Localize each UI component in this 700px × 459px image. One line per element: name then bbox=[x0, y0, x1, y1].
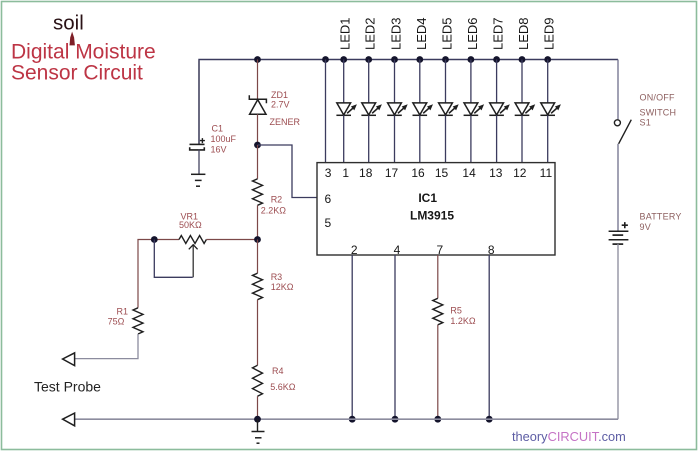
battery 9V bbox=[609, 222, 629, 244]
LED9 label bbox=[542, 17, 557, 50]
pin 7 label bbox=[436, 243, 443, 257]
R2 value label bbox=[261, 194, 287, 215]
ground under C1 bbox=[191, 174, 205, 186]
pin 17 label bbox=[385, 166, 399, 180]
node VR1 left bbox=[151, 236, 158, 243]
node top bus at LED1 bbox=[340, 56, 347, 63]
svg-text:11: 11 bbox=[540, 166, 553, 180]
wire LED7 to IC bbox=[496, 115, 498, 162]
svg-text:LED9: LED9 bbox=[542, 17, 557, 50]
svg-text:12KΩ: 12KΩ bbox=[271, 282, 294, 292]
resistor R1 bbox=[133, 308, 143, 334]
LED5 label bbox=[440, 17, 455, 50]
R3 value label bbox=[271, 272, 294, 292]
wire battery to ground bus bbox=[75, 244, 618, 419]
wire top bus to LED7 bbox=[496, 60, 498, 104]
svg-text:Sensor Circuit: Sensor Circuit bbox=[11, 62, 143, 85]
node bus at pin 4 bbox=[392, 416, 399, 423]
svg-text:6: 6 bbox=[325, 192, 332, 206]
LED1 label bbox=[338, 17, 353, 50]
LED3 bbox=[387, 103, 408, 115]
svg-text:R1: R1 bbox=[117, 306, 129, 316]
VR1 value label bbox=[179, 211, 202, 230]
wire VR1 wiper loop bbox=[154, 240, 192, 278]
node top bus at LED5 bbox=[442, 56, 449, 63]
svg-text:5: 5 bbox=[325, 216, 332, 230]
LED9 bbox=[540, 103, 561, 115]
test probe arrow lower bbox=[63, 413, 75, 426]
pin 2 label bbox=[351, 243, 358, 257]
node top bus at LED4 bbox=[416, 56, 423, 63]
capacitor C1 bbox=[190, 61, 205, 150]
LED3 label bbox=[389, 17, 404, 50]
LED5 bbox=[438, 103, 459, 115]
svg-text:R5: R5 bbox=[450, 306, 462, 316]
svg-text:3: 3 bbox=[325, 166, 332, 180]
title word soil bbox=[53, 12, 84, 35]
svg-text:5.6KΩ: 5.6KΩ bbox=[270, 382, 296, 392]
svg-text:17: 17 bbox=[385, 166, 399, 180]
LED4 bbox=[413, 103, 434, 115]
wire IC pin 8 to ground bus bbox=[488, 255, 490, 419]
IC1 name labels bbox=[410, 191, 454, 223]
R1 value label bbox=[108, 306, 128, 326]
wire top bus to LED2 bbox=[368, 60, 370, 104]
wire LED2 to IC bbox=[368, 115, 370, 162]
resistor R2 bbox=[253, 179, 263, 206]
node top bus at pin 3 column bbox=[322, 56, 329, 63]
LED6 label bbox=[465, 17, 480, 50]
pin 12 label bbox=[513, 166, 527, 180]
svg-text:15: 15 bbox=[435, 166, 449, 180]
title line Sensor Circuit bbox=[11, 62, 143, 85]
node top bus at LED6 bbox=[468, 56, 475, 63]
wire R1 column to VR1 left node bbox=[138, 240, 179, 308]
svg-text:LM3915: LM3915 bbox=[410, 209, 454, 223]
wire R5 to ground bus bbox=[437, 325, 439, 419]
op-amp IC1 LM3915 box bbox=[317, 163, 555, 255]
svg-text:LED1: LED1 bbox=[338, 17, 353, 50]
node top bus at LED8 bbox=[519, 56, 526, 63]
LED7 label bbox=[491, 17, 506, 50]
C1 value label bbox=[211, 124, 237, 155]
wire LED9 to IC bbox=[547, 115, 549, 162]
svg-text:ON/OFF: ON/OFF bbox=[640, 92, 675, 102]
svg-text:R2: R2 bbox=[271, 194, 283, 204]
node below ZD1 bbox=[254, 142, 261, 149]
svg-text:16: 16 bbox=[411, 166, 425, 180]
svg-text:IC1: IC1 bbox=[418, 191, 437, 205]
svg-text:ZENER: ZENER bbox=[270, 117, 301, 127]
svg-text:LED2: LED2 bbox=[363, 17, 378, 50]
svg-text:2.2KΩ: 2.2KΩ bbox=[261, 205, 287, 215]
pin 18 label bbox=[359, 166, 373, 180]
svg-text:50KΩ: 50KΩ bbox=[179, 220, 202, 230]
wire top bus to LED4 bbox=[419, 60, 421, 104]
switch S1 label bbox=[640, 92, 677, 127]
pin 14 label bbox=[462, 166, 476, 180]
wire node to R3 bbox=[257, 240, 259, 274]
LED6 bbox=[464, 103, 485, 115]
pin 8 label bbox=[488, 243, 495, 257]
svg-text:18: 18 bbox=[359, 166, 373, 180]
zener diode ZD1 bbox=[249, 95, 266, 114]
node top bus at LED7 bbox=[493, 56, 500, 63]
node bus at pin 7 bbox=[434, 416, 441, 423]
ground at bottom bus bbox=[252, 419, 265, 443]
svg-text:LED6: LED6 bbox=[465, 17, 480, 50]
node bus at pin 2 bbox=[349, 416, 356, 423]
LED7 bbox=[489, 103, 510, 115]
resistor R3 bbox=[253, 273, 263, 300]
pin 15 label bbox=[435, 166, 449, 180]
pin 3 label bbox=[325, 166, 332, 180]
svg-text:12: 12 bbox=[513, 166, 527, 180]
LED1 bbox=[336, 103, 357, 115]
wire IC pin 2 to ground bus bbox=[351, 255, 353, 419]
svg-text:soil: soil bbox=[53, 12, 84, 35]
wire R3 to R4 bbox=[257, 300, 259, 366]
svg-text:ZD1: ZD1 bbox=[271, 90, 288, 100]
wire top bus to LED5 bbox=[445, 60, 447, 104]
wire node to IC pin 6 bbox=[258, 145, 318, 198]
svg-text:LED8: LED8 bbox=[516, 17, 531, 50]
svg-text:LED7: LED7 bbox=[491, 17, 506, 50]
wire top bus to LED9 bbox=[547, 60, 549, 104]
svg-text:R3: R3 bbox=[271, 272, 283, 282]
resistor R5 bbox=[433, 298, 443, 325]
wire R4 to ground bus bbox=[257, 396, 259, 419]
LED8 bbox=[515, 103, 536, 115]
wire R1 to probe arrow bbox=[75, 334, 138, 359]
svg-text:75Ω: 75Ω bbox=[108, 316, 125, 326]
Test Probe label bbox=[34, 379, 101, 395]
svg-text:Test Probe: Test Probe bbox=[34, 379, 101, 395]
switch S1 bbox=[614, 120, 631, 144]
test probe arrow upper bbox=[63, 353, 75, 366]
node top bus at LED3 bbox=[391, 56, 398, 63]
svg-text:16V: 16V bbox=[211, 144, 227, 154]
node bus at ground bbox=[254, 416, 261, 423]
pin 5 label bbox=[325, 216, 332, 230]
pin 11 label bbox=[540, 166, 553, 180]
svg-text:9V: 9V bbox=[640, 222, 651, 232]
svg-text:C1: C1 bbox=[212, 124, 224, 134]
wire top supply bus bbox=[199, 60, 618, 145]
wire LED5 to IC bbox=[445, 115, 447, 162]
title line Digital Moisture bbox=[11, 41, 156, 64]
wire IC pin 7 to R5 bbox=[437, 255, 439, 298]
R4 value label bbox=[270, 366, 296, 392]
svg-text:R4: R4 bbox=[272, 366, 284, 376]
wire LED3 to IC bbox=[394, 115, 396, 162]
wire top bus to LED1 bbox=[343, 60, 345, 104]
wire top bus to LED8 bbox=[521, 60, 523, 104]
watermark theoryCIRCUIT.com bbox=[512, 429, 626, 444]
svg-text:2.7V: 2.7V bbox=[271, 100, 290, 110]
svg-text:Digital Moisture: Digital Moisture bbox=[11, 41, 156, 64]
pin 13 label bbox=[489, 166, 503, 180]
wire LED8 to IC bbox=[521, 115, 523, 162]
wire top bus to LED3 bbox=[394, 60, 396, 104]
wire switch to battery bbox=[617, 144, 619, 232]
wire node to R2 bbox=[257, 145, 259, 179]
wire C1 to ground bbox=[198, 150, 200, 174]
node VR1 right / R3 top bbox=[254, 236, 261, 243]
pin 6 label bbox=[325, 192, 332, 206]
svg-text:1: 1 bbox=[342, 166, 349, 180]
ZD1 value label bbox=[270, 90, 301, 127]
insertion caret mark bbox=[70, 32, 75, 46]
svg-text:BATTERY: BATTERY bbox=[640, 212, 682, 222]
svg-text:theoryCIRCUIT.com: theoryCIRCUIT.com bbox=[512, 429, 626, 444]
wire LED6 to IC bbox=[470, 115, 472, 162]
node top bus at ZD1 bbox=[254, 56, 261, 63]
svg-text:SWITCH: SWITCH bbox=[640, 108, 677, 118]
wire top bus to LED6 bbox=[470, 60, 472, 104]
pin 4 label bbox=[394, 243, 401, 257]
LED4 label bbox=[414, 17, 429, 50]
pin 1 label bbox=[342, 166, 349, 180]
wire VR1 right to node bbox=[206, 239, 257, 241]
svg-text:LED5: LED5 bbox=[440, 17, 455, 50]
resistor R4 bbox=[253, 365, 263, 396]
svg-text:14: 14 bbox=[462, 166, 476, 180]
node top bus at LED9 bbox=[544, 56, 551, 63]
svg-text:S1: S1 bbox=[640, 118, 651, 128]
R5 value label bbox=[450, 306, 476, 327]
LED2 bbox=[361, 103, 382, 115]
pin 16 label bbox=[411, 166, 425, 180]
svg-text:13: 13 bbox=[489, 166, 503, 180]
wire top bus to ZD1 bbox=[257, 60, 259, 100]
wire LED1 to IC bbox=[343, 115, 345, 162]
wire ZD1 to node bbox=[257, 114, 259, 145]
battery label bbox=[640, 212, 682, 232]
wire LED4 to IC bbox=[419, 115, 421, 162]
svg-text:100uF: 100uF bbox=[211, 134, 237, 144]
svg-text:1.2KΩ: 1.2KΩ bbox=[450, 316, 476, 326]
potentiometer VR1 bbox=[179, 236, 206, 278]
wire R2 to VR1 node bbox=[257, 205, 259, 239]
LED8 label bbox=[516, 17, 531, 50]
svg-text:LED3: LED3 bbox=[389, 17, 404, 50]
node top bus at LED2 bbox=[365, 56, 372, 63]
node bus at pin 8 bbox=[486, 416, 493, 423]
wire top bus to IC pin 3 bbox=[325, 60, 327, 163]
wire IC pin 4 to ground bus bbox=[394, 255, 396, 419]
LED2 label bbox=[363, 17, 378, 50]
svg-text:LED4: LED4 bbox=[414, 17, 429, 50]
